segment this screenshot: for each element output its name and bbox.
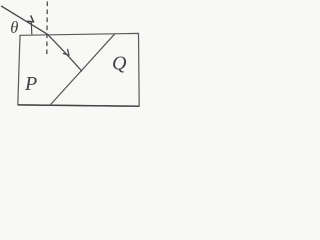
svg-text:Q: Q [112, 53, 127, 75]
normal (dashed vertical line) [46, 2, 49, 58]
refracted ray inside block [47, 34, 81, 71]
block outline (rectangle) [18, 33, 139, 106]
diagonal interface between P and Q [51, 34, 115, 104]
svg-text:θ: θ [10, 18, 18, 37]
arrowhead on refracted ray [63, 49, 69, 55]
svg-text:P: P [24, 73, 37, 95]
bottom edge (heavier) [18, 105, 139, 106]
incident ray [2, 6, 48, 34]
perpendicular tick from ray to surface [30, 22, 33, 34]
background paper [0, 0, 143, 115]
arrowhead on incident ray [28, 16, 34, 22]
